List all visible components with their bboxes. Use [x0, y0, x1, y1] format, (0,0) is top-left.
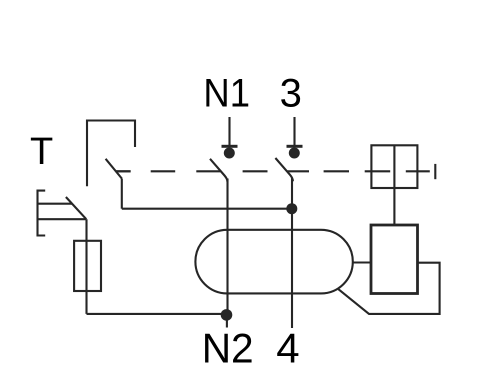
terminal 3 T-bar [287, 145, 303, 148]
latch mechanism armature line [393, 145, 395, 225]
node pole 3 junction dot [286, 203, 297, 214]
dashed mechanical link dash 6 [324, 170, 349, 172]
node N1 terminal dot [224, 148, 235, 159]
test button rod upper [38, 203, 73, 205]
dashed mechanical link: pole-3 tick [288, 170, 310, 172]
wire: test circuit vertical through resistor [85, 219, 87, 314]
terminal N1 T-bar [222, 145, 238, 148]
terminal 3 lead wire [293, 117, 295, 146]
test contact fixed tick [116, 170, 131, 172]
node N2 junction dot [221, 309, 233, 321]
trip relay coil box [371, 225, 418, 294]
test button rod lower / wire [38, 218, 87, 220]
test button contact blade [66, 197, 86, 219]
terminal N1 lead wire [228, 117, 230, 146]
switch blade pole N [210, 159, 228, 182]
current transformer core (stadium) [195, 230, 352, 294]
wire: N2 lead below dot [226, 318, 228, 328]
mechanical linkage bracket (top-left) [87, 121, 135, 187]
dashed mechanical link dash 4 [243, 170, 268, 172]
dashed mechanical link dash 8 [406, 170, 430, 172]
wire: pole N vertical [226, 179, 228, 311]
node 3 terminal dot [289, 148, 300, 159]
svg-text:N2: N2 [202, 325, 254, 372]
wire: relay secondary loop [338, 263, 439, 314]
latch mechanism box [371, 145, 417, 188]
dashed mechanical link dash 3 [196, 170, 220, 172]
switch blade pole 3 [275, 158, 293, 181]
dashed mechanical link dash 7 [365, 170, 391, 172]
wire: test switch vertical [121, 179, 123, 209]
wire: test to pole-3 junction horizontal [122, 208, 292, 210]
svg-text:T: T [30, 131, 53, 173]
wire: CT to relay connector [353, 261, 371, 263]
test button cap bracket [38, 191, 46, 236]
wire: bottom left to N2 node [87, 313, 227, 315]
wire: pole 3 vertical [291, 178, 293, 328]
dashed mechanical link dash 2 [151, 170, 176, 172]
test contact blade [106, 159, 122, 179]
svg-text:N1: N1 [203, 71, 250, 115]
svg-text:4: 4 [276, 325, 299, 372]
svg-text:3: 3 [280, 71, 302, 115]
dashed mechanical link: test tick [116, 170, 131, 172]
resistor (test) [74, 241, 101, 291]
dashed mechanical link end bar [434, 164, 436, 179]
